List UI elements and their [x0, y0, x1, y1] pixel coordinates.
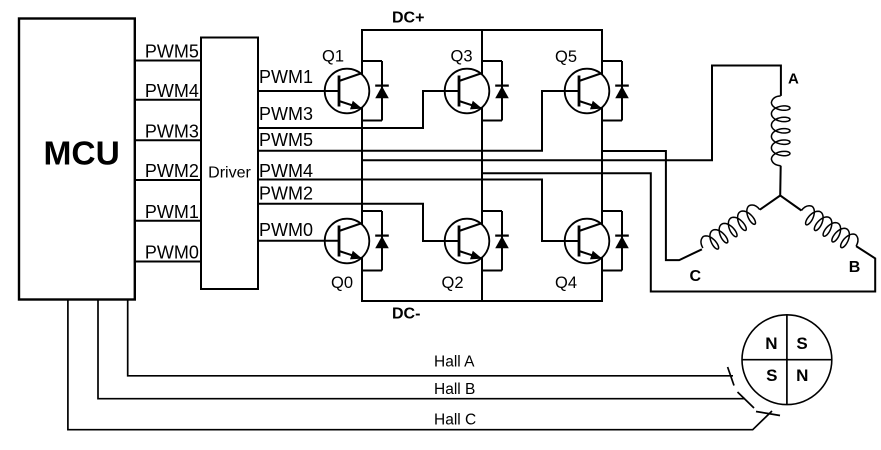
svg-text:DC-: DC-: [392, 306, 420, 323]
svg-text:PWM2: PWM2: [259, 184, 313, 204]
svg-text:PWM3: PWM3: [145, 121, 199, 141]
svg-text:PWM5: PWM5: [259, 130, 313, 150]
svg-text:PWM0: PWM0: [259, 220, 313, 240]
svg-text:Q3: Q3: [451, 48, 473, 66]
svg-text:PWM1: PWM1: [259, 67, 313, 87]
svg-text:N: N: [796, 366, 808, 385]
svg-text:S: S: [766, 366, 777, 385]
svg-text:Driver: Driver: [208, 165, 251, 182]
svg-text:Q5: Q5: [555, 48, 577, 66]
svg-text:PWM5: PWM5: [145, 42, 199, 62]
svg-text:MCU: MCU: [44, 135, 120, 172]
svg-text:C: C: [690, 268, 702, 285]
svg-text:PWM0: PWM0: [145, 243, 199, 263]
svg-text:Hall C: Hall C: [434, 411, 476, 428]
svg-text:PWM4: PWM4: [259, 161, 313, 181]
svg-text:Hall A: Hall A: [434, 354, 475, 371]
svg-text:PWM3: PWM3: [259, 104, 313, 124]
svg-text:Q1: Q1: [322, 48, 344, 66]
svg-text:Q2: Q2: [442, 274, 464, 292]
svg-text:A: A: [788, 70, 799, 87]
svg-text:DC+: DC+: [392, 10, 424, 27]
svg-text:PWM2: PWM2: [145, 161, 199, 181]
svg-text:B: B: [849, 259, 861, 276]
svg-text:PWM1: PWM1: [145, 202, 199, 222]
svg-text:Hall B: Hall B: [434, 381, 475, 398]
svg-text:PWM4: PWM4: [145, 81, 199, 101]
svg-text:S: S: [796, 334, 807, 353]
svg-text:Q4: Q4: [555, 274, 577, 292]
svg-text:Q0: Q0: [331, 274, 353, 292]
svg-text:N: N: [765, 334, 777, 353]
